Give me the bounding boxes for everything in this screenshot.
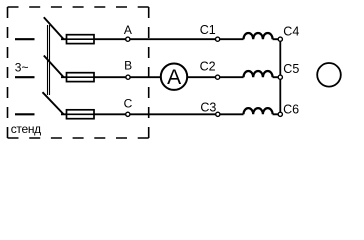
svg-text:C1: C1 <box>200 23 216 37</box>
node C1 <box>216 37 220 41</box>
dashed enclosure box (стенд) <box>7 7 9 138</box>
wire coil B to node C5 <box>273 76 281 78</box>
inductor L2 (phase B) <box>244 71 273 77</box>
fuse F1 (phase A) <box>67 35 95 44</box>
phase A terminal stub <box>15 38 35 40</box>
svg-text:A: A <box>124 23 132 37</box>
inductor L1 (phase A) <box>244 33 273 39</box>
switch blade pole B <box>44 56 64 78</box>
wire coil C to node C6 <box>273 113 281 115</box>
svg-text:C: C <box>124 97 133 111</box>
svg-text:C3: C3 <box>200 101 216 115</box>
switch mechanical linkage (double line) <box>47 25 49 95</box>
wire through fuse B <box>67 76 95 78</box>
wire phase B left of ammeter <box>61 76 161 78</box>
svg-text:стенд: стенд <box>11 122 41 136</box>
ammeter PA1 <box>161 63 187 89</box>
svg-text:C4: C4 <box>283 25 299 39</box>
node C2 <box>216 75 220 79</box>
node C6 <box>278 112 282 116</box>
motor circle M1 <box>317 63 341 87</box>
node C5 <box>278 75 282 79</box>
wire phase B right of ammeter <box>188 76 244 78</box>
inductor L3 (phase C) <box>244 108 273 114</box>
wire phase A <box>61 38 244 40</box>
phase B terminal stub <box>15 76 35 78</box>
wire phase C <box>61 113 244 115</box>
node C3 <box>216 112 220 116</box>
wire through fuse C <box>67 113 95 115</box>
phase C terminal stub <box>15 113 35 115</box>
node B <box>126 75 130 79</box>
fuse F3 (phase C) <box>67 110 95 119</box>
vertical bus C4-C5-C6 <box>279 39 281 114</box>
wire coil A to node C4 <box>273 38 281 40</box>
node A <box>126 37 130 41</box>
fuse F2 (phase B) <box>67 73 95 82</box>
svg-text:A: A <box>167 66 181 89</box>
node C <box>126 112 130 116</box>
svg-text:3~: 3~ <box>15 61 29 75</box>
node C4 <box>278 37 282 41</box>
svg-text:C2: C2 <box>200 59 216 73</box>
switch blade pole A <box>44 17 64 39</box>
switch blade pole C <box>43 92 64 114</box>
wire through fuse A <box>67 38 95 40</box>
svg-text:B: B <box>124 58 132 72</box>
svg-text:C6: C6 <box>283 103 299 117</box>
svg-text:C5: C5 <box>283 62 299 76</box>
